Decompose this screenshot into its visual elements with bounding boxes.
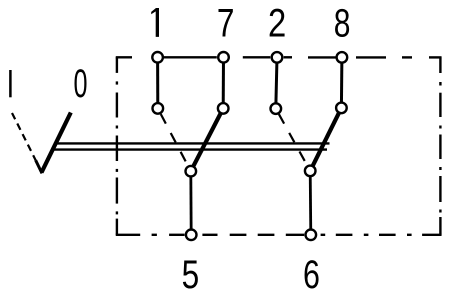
svg-text:8: 8 — [334, 2, 351, 46]
svg-text:6: 6 — [303, 252, 320, 297]
svg-text:7: 7 — [217, 0, 235, 45]
svg-text:5: 5 — [182, 252, 200, 297]
svg-text:2: 2 — [268, 1, 286, 46]
svg-text:0: 0 — [74, 62, 88, 106]
